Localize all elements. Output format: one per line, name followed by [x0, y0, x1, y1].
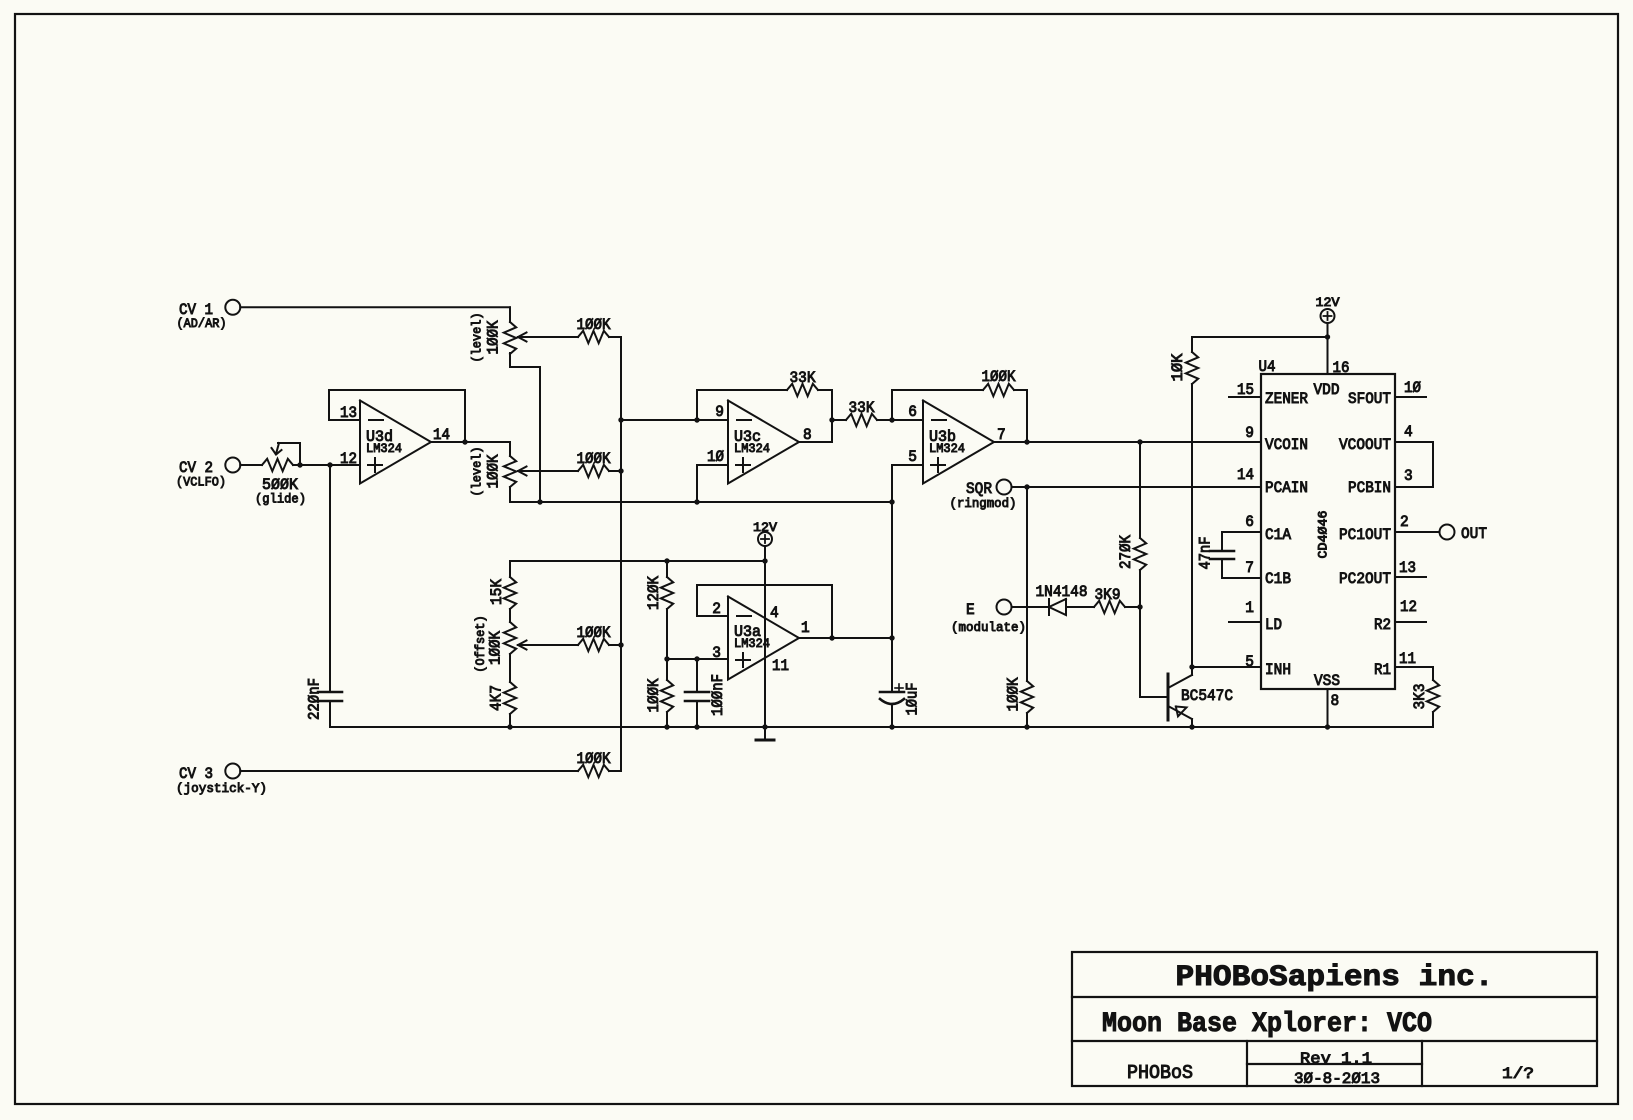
svg-text:R1: R1 [1374, 661, 1391, 679]
wire pin3 row [667, 658, 728, 660]
label 100nF [709, 674, 727, 716]
svg-text:1ØØnF: 1ØØnF [709, 674, 727, 716]
terminal OUT [1440, 525, 1455, 540]
label 270K [1117, 535, 1135, 569]
potentiometer 500K (glide) [262, 459, 293, 471]
junction V- rail [762, 724, 767, 729]
label 47nF [1197, 537, 1215, 570]
svg-text:PHOBoS: PHOBoS [1127, 1062, 1193, 1084]
wire U3b pin6 [892, 419, 923, 421]
terminal CV 3 [225, 764, 240, 779]
pin 10 stub [1395, 396, 1426, 398]
junction U3c pin9 fb [694, 417, 699, 422]
svg-text:ZENER: ZENER [1265, 390, 1308, 408]
wire pot1 bottom [510, 353, 540, 502]
wire U3c pin10 [697, 465, 728, 502]
svg-text:9: 9 [715, 403, 724, 421]
potentiometer 100K level (lower) [504, 456, 516, 487]
wire offset100K to mix [609, 644, 621, 646]
label CD4046 [1316, 511, 1331, 559]
svg-text:BC547C: BC547C [1181, 687, 1233, 705]
svg-text:1: 1 [801, 619, 810, 637]
junction 120K top [664, 558, 669, 563]
svg-text:33K: 33K [849, 399, 875, 417]
resistor 33K output [832, 419, 846, 421]
svg-text:9: 9 [1245, 424, 1254, 442]
svg-text:16: 16 [1333, 359, 1350, 377]
svg-text:VCOOUT: VCOOUT [1339, 436, 1391, 454]
label 220nF [306, 678, 324, 720]
label 100K pulldown [1005, 677, 1023, 711]
resistor 4K7 [504, 682, 516, 714]
resistor 100K (pot2 mix) [578, 465, 609, 477]
svg-text:SFOUT: SFOUT [1348, 390, 1391, 408]
terminal CV 2 [225, 458, 240, 473]
svg-text:3Ø-8-2Ø13: 3Ø-8-2Ø13 [1294, 1070, 1380, 1088]
junction fb out [1024, 439, 1029, 444]
junction emitter rail [1189, 724, 1194, 729]
svg-text:1: 1 [1245, 599, 1254, 617]
svg-text:1Ø: 1Ø [707, 448, 724, 466]
label (level) lower [470, 446, 485, 496]
svg-text:14: 14 [1237, 466, 1254, 484]
svg-text:1ØØK: 1ØØK [645, 678, 663, 712]
junction pin3 node [664, 656, 669, 661]
wire SQR to PCAIN [1012, 486, 1262, 488]
junction offset mix [618, 642, 623, 647]
svg-text:47nF: 47nF [1197, 537, 1215, 570]
label (Offset) [473, 615, 488, 672]
op-amp U3d [360, 401, 431, 484]
wire 100K to rail [1026, 713, 1028, 727]
label 100K offset pot [487, 631, 505, 665]
pin 8 wire VSS [1327, 689, 1329, 727]
wire chain top [509, 561, 511, 577]
svg-text:U4: U4 [1259, 358, 1276, 376]
pin 3 stub [1395, 486, 1433, 488]
svg-text:1ØuF: 1ØuF [904, 683, 922, 716]
wire 500K to U3d pin12 [293, 464, 360, 466]
resistor 15K [504, 577, 516, 609]
svg-text:C1B: C1B [1265, 570, 1291, 588]
label 10uF [904, 683, 922, 716]
terminal CV 1 [225, 300, 240, 315]
junction 12V tee [762, 558, 767, 563]
supply 12V (U3a) [758, 532, 772, 546]
wire CV2 to 500K [240, 464, 262, 466]
pin 15 stub [1229, 396, 1261, 398]
svg-text:1Ø: 1Ø [1404, 379, 1421, 397]
resistor 33K feedback U3c [787, 384, 818, 396]
svg-text:(glide): (glide) [255, 492, 306, 507]
resistor 270K [1134, 538, 1146, 570]
junction VSS rail [1325, 724, 1330, 729]
wire U3c output [799, 441, 832, 443]
label 100K level lower [485, 454, 503, 488]
pin 7 stub [1222, 577, 1261, 579]
junction 33K tap [829, 417, 834, 422]
pin 4 stub [1395, 441, 1433, 443]
wire CV3 to 100K [240, 770, 578, 772]
pin 13 stub [1395, 576, 1426, 578]
svg-text:VSS: VSS [1314, 672, 1340, 690]
wire VCOOUT to PCBIN [1432, 442, 1434, 487]
label 100K lower [645, 678, 663, 712]
label (level) top [470, 312, 485, 362]
resistor 100K feedback U3b [983, 384, 1014, 396]
svg-text:(VCLFO): (VCLFO) [176, 475, 226, 490]
wire diode to 3K9 [1066, 606, 1094, 608]
junction pin10 ref [694, 499, 699, 504]
junction ref left [537, 499, 542, 504]
capacitor 100nF [696, 659, 698, 692]
svg-text:(joystick-Y): (joystick-Y) [176, 781, 267, 796]
op-amp U3b [923, 401, 994, 484]
wire CV1 to pot [240, 306, 510, 308]
svg-text:LM324: LM324 [929, 441, 965, 456]
op-amp U3a [728, 597, 799, 680]
wire out to pot2 [509, 442, 511, 456]
label 100K level top [485, 320, 503, 354]
diode 1N4148 [1048, 599, 1050, 615]
svg-text:1ØØK: 1ØØK [577, 624, 611, 642]
junction pin6 [889, 417, 894, 422]
svg-text:6: 6 [908, 403, 917, 421]
svg-text:OUT: OUT [1461, 525, 1487, 543]
svg-text:3K9: 3K9 [1095, 586, 1121, 604]
svg-text:4: 4 [770, 604, 779, 622]
wire 12V to 10K [1192, 336, 1328, 338]
wire 120K to pin3 [666, 609, 668, 659]
resistor 3K9 [1094, 601, 1125, 613]
wire 120K top [666, 561, 668, 577]
wire U3a output [799, 637, 892, 639]
junction 500K wiper [297, 462, 302, 467]
wire U3b output to VCOIN [994, 441, 1261, 443]
svg-text:CD4Ø46: CD4Ø46 [1316, 511, 1331, 559]
svg-text:3K3: 3K3 [1411, 684, 1429, 710]
label 4K7 [488, 685, 506, 711]
svg-text:1ØØK: 1ØØK [485, 320, 503, 354]
junction U3a fb [829, 635, 834, 640]
transistor Q1 BC547C [1167, 674, 1170, 720]
svg-text:11: 11 [1399, 650, 1416, 668]
svg-text:2: 2 [1400, 513, 1409, 531]
svg-text:12V: 12V [1316, 295, 1340, 310]
svg-text:1ØØK: 1ØØK [577, 316, 611, 334]
junction 100Kp rail [1024, 724, 1029, 729]
svg-text:Moon Base Xplorer: VCO: Moon Base Xplorer: VCO [1102, 1009, 1432, 1040]
wire 4K7 to rail [509, 714, 511, 727]
wire U3c feedback [697, 390, 787, 420]
svg-text:1ØK: 1ØK [1169, 353, 1187, 381]
capacitor 220nF [329, 465, 331, 692]
svg-text:3: 3 [1404, 467, 1413, 485]
resistor 10K [1186, 352, 1198, 384]
terminal E [997, 600, 1012, 615]
svg-text:5: 5 [1245, 653, 1254, 671]
label 120K [645, 576, 663, 610]
resistor 120K [661, 577, 673, 609]
wire 15K to pot [509, 609, 511, 622]
svg-text:12: 12 [340, 450, 357, 468]
svg-text:11: 11 [772, 657, 789, 675]
wire 3K3 to rail [1432, 712, 1434, 727]
terminal SQR [997, 480, 1012, 495]
svg-text:PCBIN: PCBIN [1348, 479, 1391, 497]
svg-text:1ØØK: 1ØØK [1005, 677, 1023, 711]
svg-text:LM324: LM324 [366, 441, 402, 456]
wire pot2 bottom [510, 487, 540, 502]
pin 1 stub [1229, 621, 1261, 623]
wire U3b feedback [892, 390, 983, 420]
junction INH node [1189, 664, 1194, 669]
svg-text:C1A: C1A [1265, 526, 1291, 544]
junction mod node [1137, 604, 1142, 609]
wire 100K to mix node [609, 337, 621, 771]
svg-text:1ØØK: 1ØØK [485, 454, 503, 488]
svg-text:13: 13 [1399, 559, 1416, 577]
junction 100nF rail [694, 724, 699, 729]
ground [764, 727, 766, 740]
junction SQR [1024, 484, 1029, 489]
svg-text:8: 8 [1331, 692, 1340, 710]
wire reference line [540, 501, 892, 503]
svg-text:15: 15 [1237, 381, 1254, 399]
junction pin5 ref [889, 499, 894, 504]
junction 100K rail [664, 724, 669, 729]
wire 12V to VDD [1327, 323, 1329, 374]
resistor 100K lower [661, 680, 673, 712]
svg-text:PC1OUT: PC1OUT [1339, 526, 1391, 544]
wire 100K2 to mix node [609, 470, 621, 472]
svg-text:4K7: 4K7 [488, 685, 506, 711]
wire 270K top [1139, 442, 1141, 538]
wire SQR pulldown [1026, 487, 1028, 681]
svg-text:22ØnF: 22ØnF [306, 678, 324, 720]
svg-text:E: E [966, 601, 975, 619]
svg-text:1ØØK: 1ØØK [577, 450, 611, 468]
resistor 3K3 [1427, 680, 1439, 712]
junction 12V [1325, 334, 1330, 339]
junction U3a out [889, 635, 894, 640]
svg-text:INH: INH [1265, 661, 1291, 679]
wire 12V drop [764, 546, 766, 561]
pin 6 stub [1222, 531, 1261, 533]
wire 100K to rail 2 [666, 712, 668, 727]
wire R1 to 3K3 [1432, 667, 1434, 680]
svg-text:33K: 33K [790, 369, 816, 387]
wire ref to out node [891, 502, 893, 638]
wire 3K9 to node [1125, 606, 1140, 608]
svg-text:12: 12 [1400, 598, 1417, 616]
svg-text:27ØK: 27ØK [1117, 535, 1135, 569]
svg-text:3: 3 [712, 644, 721, 662]
wire U3a feedback [697, 585, 832, 638]
label 15K [488, 579, 506, 605]
wire pot to 4K7 [509, 654, 511, 682]
svg-text:7: 7 [1245, 559, 1254, 577]
junction 220nF tap [327, 462, 332, 467]
junction U3d out [462, 439, 467, 444]
svg-text:(ringmod): (ringmod) [950, 496, 1017, 511]
pin 2 stub [1395, 531, 1440, 533]
svg-text:4: 4 [1404, 423, 1413, 441]
title block box [1072, 952, 1597, 1086]
svg-text:(level): (level) [470, 446, 485, 496]
svg-text:(level): (level) [470, 312, 485, 362]
svg-text:6: 6 [1245, 513, 1254, 531]
supply 12V (U4) [1321, 309, 1335, 323]
svg-text:1ØØK: 1ØØK [577, 750, 611, 768]
wire U3d output [431, 441, 510, 443]
svg-text:12V: 12V [753, 520, 777, 535]
svg-text:R2: R2 [1374, 616, 1391, 634]
resistor 100K (CV1 mix) [578, 331, 609, 343]
svg-text:VDD: VDD [1314, 381, 1340, 399]
svg-text:12ØK: 12ØK [645, 576, 663, 610]
potentiometer 100K Offset [504, 622, 516, 654]
wire 270K to base [1140, 570, 1168, 697]
svg-text:(modulate): (modulate) [951, 620, 1026, 635]
wire E to diode [1012, 606, 1050, 608]
svg-text:1N4148: 1N4148 [1036, 583, 1088, 601]
junction 270K tap [1137, 439, 1142, 444]
svg-text:1ØØK: 1ØØK [982, 368, 1016, 386]
svg-text:PHOBoSapiens inc.: PHOBoSapiens inc. [1176, 961, 1494, 995]
junction 4K7 rail [507, 724, 512, 729]
wire 10K to INH [1191, 384, 1193, 667]
svg-text:LD: LD [1265, 616, 1282, 634]
resistor 100K CV3 [578, 765, 609, 777]
svg-text:1/?: 1/? [1502, 1065, 1534, 1083]
capacitor 10uF [891, 638, 893, 692]
wire ground rail [330, 726, 1433, 728]
svg-text:PCAIN: PCAIN [1265, 479, 1308, 497]
svg-text:PC2OUT: PC2OUT [1339, 570, 1391, 588]
junction mix pin9 [618, 417, 623, 422]
junction 100nF top [694, 656, 699, 661]
wire 120K/100K node [666, 659, 668, 680]
pin 12 stub [1395, 621, 1426, 623]
wire U3b pin5 [892, 465, 923, 502]
capacitor 47nF [1221, 532, 1223, 551]
pin 11 stub [1395, 666, 1433, 668]
svg-text:1ØØK: 1ØØK [487, 631, 505, 665]
potentiometer 100K level (top) [504, 322, 516, 354]
label 10K [1169, 353, 1187, 381]
label 3K3 [1411, 684, 1429, 710]
junction mix pot2 [618, 468, 623, 473]
svg-text:LM324: LM324 [734, 441, 770, 456]
wire U3d feedback [329, 390, 465, 442]
resistor 100K offset mix [578, 639, 609, 651]
svg-text:VCOIN: VCOIN [1265, 436, 1308, 454]
junction 10uF rail [889, 724, 894, 729]
IC U4 CD4046 box [1261, 374, 1395, 689]
wire 12V rail horizontal [510, 560, 765, 562]
resistor 100K pulldown [1021, 681, 1033, 713]
svg-text:(AD/AR): (AD/AR) [177, 316, 227, 331]
wire mix to U3c pin9 [621, 419, 728, 421]
svg-text:15K: 15K [488, 579, 506, 605]
svg-text:Rev 1.1: Rev 1.1 [1300, 1050, 1372, 1068]
wire INH to IC [1192, 666, 1261, 668]
svg-text:5: 5 [908, 448, 917, 466]
op-amp U3c [728, 401, 799, 484]
